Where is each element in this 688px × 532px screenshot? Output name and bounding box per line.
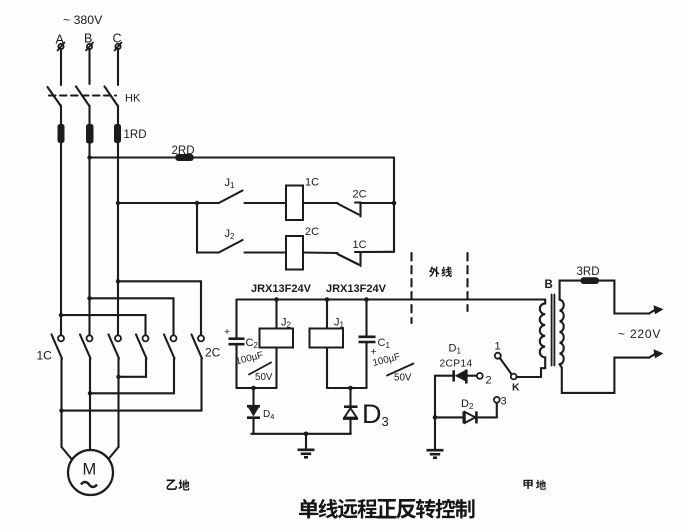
svg-text:50V: 50V: [394, 373, 412, 384]
wire J2 coil top lead: [275, 300, 277, 329]
svg-text:M: M: [83, 461, 97, 479]
switch HK blade pole A: [48, 87, 61, 106]
wire NC to right bus row2: [361, 251, 395, 253]
svg-text:~ 380V: ~ 380V: [63, 13, 103, 27]
wire right branch bottom: [327, 387, 367, 389]
contact J2 normally-open blade: [219, 240, 243, 253]
wire phase B bus down: [88, 142, 90, 336]
svg-text:2RD: 2RD: [172, 145, 195, 157]
svg-text:2C: 2C: [305, 226, 319, 238]
capacitor C1 value 100uF 50V: [372, 351, 414, 383]
wire pole2 to motor: [89, 359, 91, 452]
switch K blade: [500, 358, 512, 374]
svg-text:1C: 1C: [353, 239, 367, 251]
svg-text:2C: 2C: [353, 189, 367, 201]
svg-text:2C: 2C: [205, 346, 221, 360]
node junction crossover on A: [59, 313, 63, 317]
wire D2 up to terminal 3: [496, 403, 498, 418]
wire coil 1C to NC contact: [303, 202, 338, 204]
node junction crossover on C: [116, 279, 120, 283]
node junction ground tap: [304, 432, 309, 437]
boundary dashed line right: [466, 253, 468, 311]
svg-text:B: B: [545, 279, 553, 291]
fuse 1RD pole A: [58, 124, 65, 143]
node junction control feed on B: [87, 155, 91, 159]
wire pole1 to motor: [60, 359, 62, 448]
node terminal 2: [477, 373, 483, 379]
terminal arrow upper 220V: [649, 305, 664, 314]
switch HK blade pole B: [76, 87, 89, 106]
wire ground bus: [251, 433, 350, 435]
node C terminal: [113, 32, 122, 51]
node junction pole6 on A: [59, 408, 63, 412]
wire K to transformer primary: [517, 368, 546, 377]
svg-text:50V: 50V: [255, 372, 273, 383]
transformer B primary winding: [540, 300, 545, 369]
diode D2: [464, 411, 497, 423]
wire motor lead right angled: [108, 447, 119, 460]
fuse 3RD: [581, 277, 600, 284]
wire control bus right drop: [393, 158, 395, 252]
contact 1C normally-closed interlock: [338, 252, 361, 266]
svg-text:3: 3: [501, 396, 507, 408]
diode D4: [247, 388, 260, 434]
svg-text:JRX13F24V: JRX13F24V: [251, 283, 312, 295]
wire pole A to fuse: [60, 106, 62, 126]
contact 2C main pole 4: [136, 335, 149, 359]
svg-text:1C: 1C: [37, 349, 53, 363]
fuse 1RD pole C: [114, 124, 121, 143]
relay coil J2: [260, 329, 294, 348]
wire row1 from phase C: [118, 202, 219, 204]
wire crossover B to contact5: [90, 298, 174, 335]
capacitor C2 value 100uF 50V: [235, 350, 273, 383]
title single-wire remote forward-reverse control: [299, 499, 475, 519]
svg-text:2: 2: [486, 375, 492, 387]
wire J1 coil bottom lead: [326, 348, 328, 389]
wire coil 2C to NC contact: [303, 251, 338, 254]
node junction row1 right: [392, 201, 397, 206]
wire phase A drop to switch: [60, 49, 62, 85]
diode D3: [343, 388, 358, 434]
coil 1C contactor: [286, 186, 303, 221]
contact 1C main pole 1: [52, 335, 65, 359]
fuse 2RD: [175, 154, 193, 161]
svg-text:K: K: [512, 382, 520, 394]
wire J1 to coil 1C: [245, 202, 287, 204]
node junction D3 tap: [348, 386, 353, 391]
svg-text:1C: 1C: [305, 177, 319, 189]
ground symbol left station: [298, 434, 315, 458]
wire C2 to bottom: [235, 344, 237, 388]
switch HK linkage dashed tie: [49, 94, 116, 96]
svg-text:1RD: 1RD: [124, 129, 147, 141]
wire row1 to row2 left drop: [197, 203, 219, 253]
transformer B core: [552, 295, 555, 366]
wire J2 to coil 2C: [245, 251, 287, 253]
node junction C1 top: [364, 297, 369, 302]
svg-text:+: +: [224, 326, 230, 338]
wire pole3 to motor: [117, 359, 119, 448]
capacitor C1 electrolytic: [359, 337, 377, 358]
node A terminal: [56, 33, 65, 51]
wire left branch down to C2: [235, 300, 237, 339]
transformer B secondary winding: [560, 300, 564, 365]
node junction row1 branch: [195, 201, 199, 205]
node terminal 3: [494, 397, 500, 403]
motor tilde: [81, 482, 97, 487]
boundary dashed line left: [410, 253, 412, 323]
contact 1C main pole 2: [80, 335, 93, 359]
svg-text:JRX13F24V: JRX13F24V: [326, 283, 387, 295]
wire phase C bus down: [117, 142, 119, 336]
wire crossover C to contact6: [118, 281, 201, 335]
switch K pivot: [511, 374, 517, 380]
contact 2C main pole 6: [192, 335, 205, 359]
node junction crossover on B: [87, 296, 91, 300]
node junction D4 tap: [251, 386, 256, 391]
node junction pole4 on C: [116, 375, 120, 379]
capacitor C2 electrolytic: [224, 326, 245, 344]
net jiadi place label: [524, 480, 547, 490]
wire secondary bottom to lower output: [560, 358, 649, 393]
switch HK blade pole C: [105, 87, 118, 106]
wire left branch bottom: [237, 387, 277, 389]
wire pole4 crossover to C: [119, 359, 147, 377]
wire pole C to fuse: [117, 106, 119, 126]
node junction row1 on C: [116, 201, 120, 205]
wire relay top bus to transformer: [237, 298, 546, 300]
relay coil J1: [310, 329, 344, 348]
contact 2C normally-closed interlock: [338, 203, 361, 217]
ground symbol right station: [427, 450, 444, 458]
node B terminal: [84, 32, 93, 51]
contact 2C main pole 5: [164, 335, 177, 359]
node terminal 1: [495, 353, 501, 359]
node junction J2 coil top: [274, 297, 279, 302]
wire phase A bus down: [60, 142, 62, 336]
wire fuse to upper output: [599, 281, 649, 314]
net waixian external line label: [429, 267, 452, 278]
wire to diode D1: [435, 375, 453, 377]
coil 2C contactor: [286, 236, 303, 270]
svg-text:3RD: 3RD: [577, 266, 600, 278]
motor M circle: [68, 450, 113, 495]
net yidi place label: [167, 480, 190, 491]
wire to diode D2: [435, 416, 463, 418]
wire D1 branch vertical: [434, 376, 436, 450]
svg-text:~ 220V: ~ 220V: [618, 327, 661, 341]
wire secondary top to fuse: [560, 281, 581, 300]
wire C1 to bottom: [365, 342, 367, 388]
fuse 1RD pole B: [86, 124, 94, 144]
wire control feed from phase B: [90, 156, 395, 158]
svg-text:HK: HK: [125, 93, 141, 105]
diode D1 2CP14: [454, 370, 477, 384]
node junction D2 tap: [433, 415, 438, 420]
svg-text:1: 1: [495, 341, 501, 353]
node junction J1 coil top: [325, 297, 330, 302]
terminal arrow lower 220V: [649, 349, 664, 358]
wire motor lead left angled: [62, 447, 73, 460]
wire right branch down to C1: [365, 300, 367, 337]
node junction pole5 on B: [88, 391, 92, 395]
wire pole6 crossover to A: [62, 359, 202, 411]
wire J1 coil top lead: [326, 300, 328, 329]
contact J1 normally-open blade: [219, 191, 243, 204]
wire crossover A to contact4: [61, 315, 146, 335]
contact 1C main pole 3: [109, 335, 122, 359]
wire J2 coil bottom lead: [275, 348, 277, 389]
svg-text:2CP14: 2CP14: [440, 359, 473, 370]
wire pole B to fuse: [88, 106, 90, 126]
wire NC to right bus row1: [361, 202, 395, 204]
wire pole5 crossover to B: [90, 359, 174, 394]
wire phase B drop to switch: [88, 49, 90, 84]
wire phase C drop to switch: [117, 49, 119, 85]
